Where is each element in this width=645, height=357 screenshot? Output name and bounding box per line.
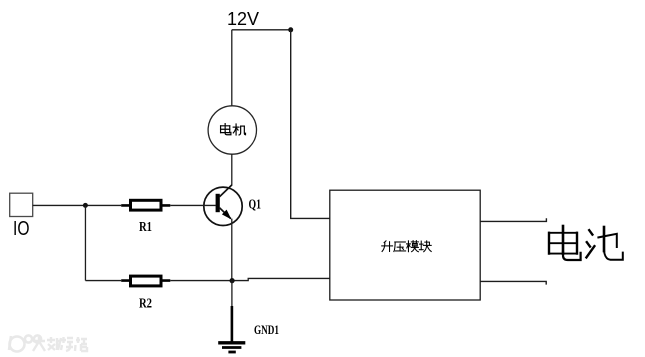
base bar — [216, 194, 220, 212]
svg-text:R2: R2 — [139, 296, 152, 311]
collector lead — [220, 185, 232, 197]
emitter arrow — [222, 210, 232, 220]
wire: rail down to motor — [231, 30, 233, 107]
wire: node B down to ground — [231, 281, 233, 306]
watermark text 大数跨境 (faint) — [33, 337, 87, 351]
boost module box 升压模块 — [330, 190, 480, 300]
boost module label — [382, 241, 431, 252]
svg-text:R1: R1 — [139, 219, 152, 234]
wire: emitter down to node — [231, 219, 233, 281]
wire: boost module right pin 3 — [480, 218, 546, 221]
emitter lead — [220, 208, 231, 219]
wire: rail down to boost module pin 1 — [291, 30, 330, 219]
node: 12V junction dot — [288, 27, 293, 32]
svg-text:GND1: GND1 — [254, 322, 279, 337]
svg-text:12V: 12V — [227, 9, 259, 29]
svg-text:Q1: Q1 — [249, 196, 262, 211]
motor M1 circle — [208, 106, 256, 154]
resistor R2 — [121, 276, 170, 286]
watermark logo (bottom left, faint) — [9, 335, 41, 351]
IO port square — [10, 193, 33, 216]
node B junction dot (emitter/R2/ground) — [230, 278, 235, 283]
wire: IO to R1 — [33, 204, 122, 206]
battery label 电池 — [549, 226, 623, 260]
wire: motor to transistor collector — [231, 154, 233, 185]
wire: R2 to boost module pin 2 (with jog) — [170, 278, 329, 280]
resistor R1 — [121, 200, 170, 210]
wire: to R2 — [85, 280, 121, 282]
motor label 电机 — [221, 124, 246, 135]
ground GND1 — [218, 306, 245, 352]
wire: 12V top rail — [232, 29, 291, 31]
wire: R1 to base — [170, 204, 216, 206]
node A junction dot — [83, 203, 88, 208]
svg-text:IO: IO — [13, 218, 30, 240]
wire: boost module right pin 4 — [480, 281, 546, 284]
transistor Q1 — [204, 185, 242, 226]
wire: node A down — [84, 205, 86, 280]
